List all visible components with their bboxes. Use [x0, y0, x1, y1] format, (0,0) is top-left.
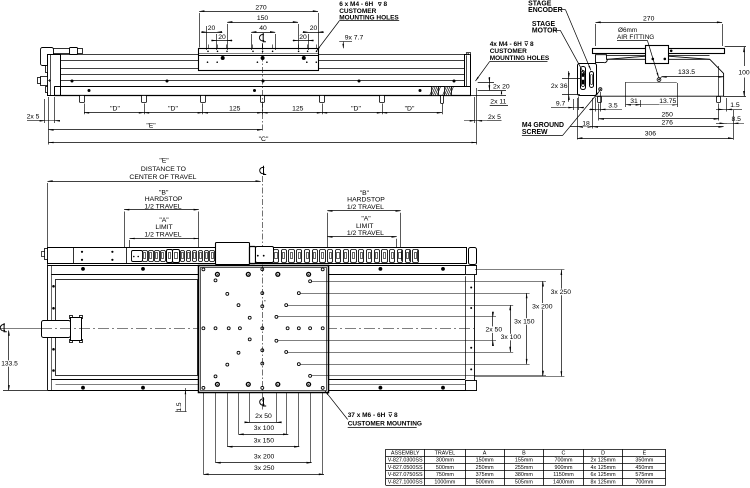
- svg-text:LIMIT: LIMIT: [356, 223, 373, 230]
- svg-text:1150mm: 1150mm: [553, 472, 574, 478]
- svg-text:500mm: 500mm: [436, 465, 454, 471]
- svg-text:V-827.0500SS: V-827.0500SS: [388, 465, 423, 471]
- svg-text:100: 100: [738, 69, 750, 76]
- svg-text:2x 11: 2x 11: [490, 99, 506, 106]
- svg-text:CENTER OF TRAVEL: CENTER OF TRAVEL: [129, 174, 196, 181]
- svg-text:8: 8: [394, 412, 398, 419]
- svg-text:CUSTOMER: CUSTOMER: [490, 48, 527, 55]
- svg-text:V-827.0750SS: V-827.0750SS: [388, 472, 423, 478]
- svg-text:150: 150: [257, 15, 269, 22]
- svg-text:3x 100: 3x 100: [501, 334, 522, 341]
- svg-text:3x 200: 3x 200: [532, 303, 553, 310]
- svg-text:LIMIT: LIMIT: [155, 224, 172, 231]
- svg-text:125: 125: [292, 106, 304, 113]
- svg-text:8: 8: [384, 1, 388, 8]
- svg-text:M4 GROUND: M4 GROUND: [522, 122, 564, 129]
- svg-text:255mm: 255mm: [515, 465, 533, 471]
- svg-text:1.5: 1.5: [730, 102, 740, 109]
- svg-text:700mm: 700mm: [635, 480, 653, 486]
- svg-text:V-827.0300SS: V-827.0300SS: [388, 458, 423, 464]
- svg-text:MOUNTING HOLES: MOUNTING HOLES: [490, 55, 550, 62]
- svg-text:ENCODER: ENCODER: [528, 7, 562, 14]
- svg-text:1.5: 1.5: [176, 402, 183, 411]
- svg-text:8: 8: [530, 41, 534, 48]
- svg-text:3x 250: 3x 250: [551, 289, 572, 296]
- svg-text:8.5: 8.5: [731, 116, 741, 123]
- svg-text:2x 50: 2x 50: [485, 327, 502, 334]
- svg-text:20: 20: [299, 34, 307, 41]
- svg-text:1/2 TRAVEL: 1/2 TRAVEL: [144, 232, 181, 239]
- svg-text:40: 40: [259, 25, 267, 32]
- svg-text:3.5: 3.5: [608, 102, 618, 109]
- svg-text:ASSEMBLY: ASSEMBLY: [391, 451, 420, 457]
- svg-text:900mm: 900mm: [555, 465, 573, 471]
- svg-text:4x M4 - 6H: 4x M4 - 6H: [490, 41, 522, 48]
- svg-text:250mm: 250mm: [476, 465, 494, 471]
- svg-text:"D": "D": [405, 106, 415, 113]
- svg-text:2x 36: 2x 36: [551, 83, 568, 90]
- svg-text:276: 276: [662, 120, 674, 127]
- svg-text:4x 125mm: 4x 125mm: [591, 465, 617, 471]
- svg-text:505mm: 505mm: [515, 480, 533, 486]
- svg-text:HARDSTOP: HARDSTOP: [145, 196, 183, 203]
- svg-text:D: D: [601, 451, 605, 457]
- svg-text:3x 200: 3x 200: [254, 453, 275, 460]
- svg-text:8x 125mm: 8x 125mm: [591, 480, 617, 486]
- svg-text:"C": "C": [259, 136, 269, 143]
- svg-text:125: 125: [229, 106, 241, 113]
- svg-text:1/2 TRAVEL: 1/2 TRAVEL: [347, 230, 384, 237]
- svg-text:20: 20: [310, 25, 318, 32]
- svg-text:270: 270: [255, 4, 267, 11]
- svg-text:MOTOR: MOTOR: [532, 28, 558, 35]
- svg-text:375mm: 375mm: [476, 472, 494, 478]
- svg-text:1400mm: 1400mm: [553, 480, 574, 486]
- svg-text:37 x M6 - 6H: 37 x M6 - 6H: [348, 412, 386, 419]
- svg-text:3x 250: 3x 250: [254, 465, 275, 472]
- svg-text:Ø6mm: Ø6mm: [618, 27, 637, 34]
- svg-text:"D": "D": [351, 106, 361, 113]
- svg-text:9.7: 9.7: [556, 100, 566, 107]
- svg-text:"D": "D": [110, 106, 120, 113]
- svg-text:300mm: 300mm: [436, 458, 454, 464]
- svg-text:C: C: [562, 451, 566, 457]
- svg-text:DISTANCE TO: DISTANCE TO: [141, 166, 186, 173]
- svg-text:A: A: [483, 451, 487, 457]
- svg-text:250: 250: [662, 112, 674, 119]
- svg-text:31: 31: [630, 98, 638, 105]
- svg-text:CUSTOMER MOUNTING: CUSTOMER MOUNTING: [348, 421, 422, 428]
- svg-text:575mm: 575mm: [635, 472, 653, 478]
- svg-text:2x 5: 2x 5: [27, 113, 40, 120]
- svg-text:270: 270: [643, 15, 655, 22]
- svg-text:150mm: 150mm: [476, 458, 494, 464]
- svg-text:V-827.1000SS: V-827.1000SS: [388, 480, 423, 486]
- svg-text:3x 150: 3x 150: [514, 319, 535, 326]
- svg-text:B: B: [522, 451, 526, 457]
- svg-text:380mm: 380mm: [515, 472, 533, 478]
- svg-text:1000mm: 1000mm: [434, 480, 455, 486]
- svg-text:E: E: [643, 451, 647, 457]
- svg-text:"A": "A": [361, 216, 371, 223]
- svg-text:3x 100: 3x 100: [254, 425, 275, 432]
- svg-text:20: 20: [208, 25, 216, 32]
- svg-text:20: 20: [218, 34, 226, 41]
- svg-text:3x 150: 3x 150: [254, 438, 275, 445]
- svg-text:"E": "E": [146, 123, 156, 130]
- svg-text:"D": "D": [168, 106, 178, 113]
- svg-text:306: 306: [645, 131, 657, 138]
- svg-text:2x 5: 2x 5: [488, 114, 501, 121]
- svg-text:133.5: 133.5: [678, 69, 695, 76]
- svg-text:2x 20: 2x 20: [493, 84, 510, 91]
- svg-text:TRAVEL: TRAVEL: [435, 451, 456, 457]
- svg-text:450mm: 450mm: [635, 465, 653, 471]
- svg-text:9x 7.7: 9x 7.7: [345, 34, 364, 41]
- svg-text:500mm: 500mm: [476, 480, 494, 486]
- svg-text:350mm: 350mm: [635, 458, 653, 464]
- svg-text:2x 125mm: 2x 125mm: [591, 458, 617, 464]
- svg-text:"A": "A": [159, 217, 169, 224]
- svg-text:155mm: 155mm: [515, 458, 533, 464]
- svg-text:"E": "E": [159, 158, 169, 165]
- svg-text:HARDSTOP: HARDSTOP: [347, 197, 385, 204]
- svg-text:2x 50: 2x 50: [255, 413, 272, 420]
- svg-text:750mm: 750mm: [436, 472, 454, 478]
- svg-text:6x 125mm: 6x 125mm: [591, 472, 617, 478]
- svg-text:18: 18: [582, 120, 590, 127]
- svg-text:700mm: 700mm: [555, 458, 573, 464]
- svg-text:13.75: 13.75: [659, 98, 676, 105]
- svg-text:133.5: 133.5: [1, 361, 18, 368]
